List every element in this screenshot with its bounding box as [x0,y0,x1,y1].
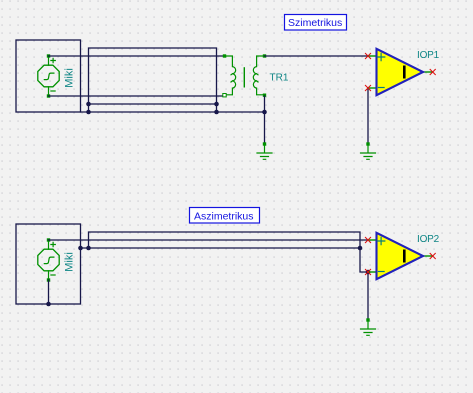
voltage generator VG1 (top, Miki) octagon [38,65,59,87]
wire secondary top to IOP1 plus input [265,55,369,57]
svg-text:Miki: Miki [64,252,76,272]
wire + net (top): source plus to transformer primary top [49,55,225,57]
wire + net (bottom): source plus to IOP2 plus input [49,239,369,241]
svg-text:Aszimetrikus: Aszimetrikus [194,210,254,222]
transformer TR1 secondary winding [253,56,262,95]
junction at (88.5,112) [86,110,91,115]
wire loop top (y=232) to IOP2 minus input [89,232,369,272]
svg-text:Miki: Miki [64,68,76,88]
op-amp IOP2 minus glyph [379,271,385,273]
op-amp IOP1 pin stub output [424,71,432,73]
label box Szimetrikus [285,15,347,31]
wire ground bus (y=112) [81,111,265,113]
op-amp IOP1 plus glyph [377,53,384,60]
terminal square - (top source) [47,94,50,97]
pin square TR1 primary top [223,54,226,57]
generator bottom pin stem (top source) [48,87,50,95]
terminal square + (bottom source) [47,238,50,241]
op-amp IOP1 ideal marker I [403,66,406,79]
pin-x IOP2 plus [365,237,370,242]
minus sign (bottom source) [51,274,55,276]
generator bottom pin stem (bottom source) [48,271,50,279]
wire shield return (y=104) [89,103,217,105]
generator top pin stem (bottom source) [48,242,50,250]
svg-text:IOP2: IOP2 [417,234,440,245]
pin square TR1 secondary bottom [263,94,266,97]
generator top pin stem (top source) [48,58,50,66]
transformer TR1 core [243,68,245,87]
pin square TR1 secondary top [263,54,266,57]
source enclosure box (bottom) [16,224,81,304]
op-amp IOP1 pin stub plus [368,55,376,57]
svg-text:TR1: TR1 [270,73,289,84]
plus sign (top source) [51,58,55,62]
cable shield rectangle (top) [89,48,217,112]
plus sign (bottom source) [51,242,55,246]
pin-x IOP2 output [430,253,435,258]
minus sign (top source) [51,90,55,92]
op-amp IOP2 pin stub minus [368,271,376,273]
op-amp IOP1 minus glyph [379,87,385,89]
generator waveform (bottom) [44,257,54,263]
op-amp IOP1 body [377,49,424,95]
pin-x IOP1 output [430,69,435,74]
junction at (80.5,248) [78,246,83,251]
junction at (48.5,304) [46,302,51,307]
wire secondary bottom down to ground bus [264,96,266,143]
wire return bus (y=248) [81,247,361,249]
terminal square + (top source) [47,54,50,57]
pin-x IOP1 minus [365,85,370,90]
label box Aszimetrikus [190,208,260,224]
transformer TR1 primary winding [226,56,235,95]
ground GND3 (under IOP2) [361,318,376,335]
junction at (88.5,104) [86,102,91,107]
svg-text:Szimetrikus: Szimetrikus [288,17,342,29]
svg-text:IOP1: IOP1 [417,50,440,61]
op-amp IOP2 body [377,233,424,279]
ground GND1 (under transformer) [257,142,272,159]
wire source minus down to box edge [48,280,50,304]
source enclosure box (top) [16,40,81,112]
op-amp IOP2 pin stub output [424,255,432,257]
pin square TR1 primary bottom (open) [223,94,226,97]
op-amp IOP2 ideal marker I [403,250,406,263]
junction at (216.5,104) [214,102,219,107]
junction at (88.5,248) [86,246,91,251]
pin-x IOP1 plus [365,53,370,58]
terminal square - (bottom source) [47,278,50,281]
junction at (368,272) [366,270,371,275]
voltage generator VG2 (bottom, Miki) octagon [38,249,59,271]
wire IOP1 minus input to ground [367,88,369,143]
junction at (264.5,112) [262,110,267,115]
wire IOP2 minus node to ground [367,272,369,319]
op-amp IOP1 pin stub minus [368,87,376,89]
pin-x IOP2 minus [365,269,370,274]
junction at (216.5,112) [214,110,219,115]
generator waveform (top) [44,73,54,80]
ground GND2 (under IOP1) [361,142,376,159]
junction at (360,248) [358,246,363,251]
op-amp IOP2 plus glyph [377,237,384,244]
op-amp IOP2 pin stub plus [368,239,376,241]
wire - net (top): source minus to transformer primary bottom [49,95,225,97]
